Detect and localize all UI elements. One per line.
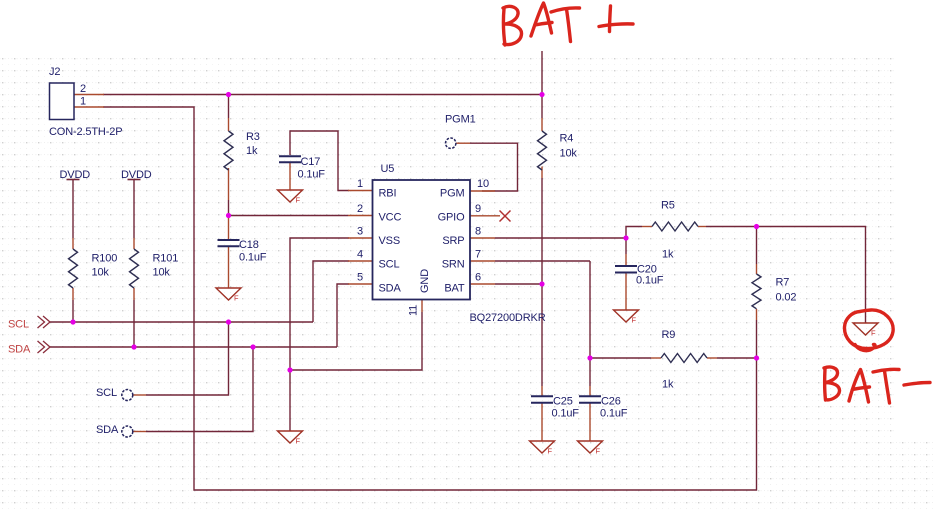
svg-text:R5: R5 [661,200,675,212]
wire J2 pin1 to bottom rail to R7/R9 junction [103,107,757,490]
C20 bottom leg to ground [625,273,627,311]
wire C20 junction riser to R5 [626,227,642,239]
R101 bottom leg [133,288,135,300]
svg-text:6: 6 [475,272,481,284]
connector J2 body [50,83,75,120]
wire R101 bottom dark part [133,300,135,346]
wire SDA rail [50,346,337,348]
capacitor C18 plates [218,240,240,246]
pin 1 RBI stub [348,190,373,192]
junction R3/bus [226,92,231,97]
node BAT+ handwritten annotation [503,6,522,45]
svg-text:0.1uF: 0.1uF [600,408,628,420]
svg-text:F: F [871,329,876,338]
junction SDA branch [250,344,255,349]
resistor R4 zigzag [538,131,547,170]
svg-text:C18: C18 [239,239,259,251]
svg-text:SRP: SRP [442,235,464,247]
junction R101/SDA rail [131,344,136,349]
wire SCL rail rise to pin 4 [313,261,349,322]
wire C20 top dark part [625,239,627,254]
resistor R7 zigzag [752,274,761,309]
C26 top leg [589,386,591,396]
wire VSS pin 3 down to ground [290,238,349,431]
pin 3 VSS stub [348,237,373,239]
wire R9 right segment [717,357,757,359]
svg-text:10k: 10k [560,148,578,160]
C18 bottom leg to ground [228,247,230,288]
svg-text:F: F [234,294,239,303]
pin 5 SDA stub [348,283,373,285]
wire VCC net R3/C18 junction to pin 2 [230,215,348,217]
wire R9 left segment [590,357,651,359]
svg-text:1k: 1k [662,379,674,391]
R7 top leg [756,264,758,274]
wire GND pin 11 to VSS ground branch [290,312,422,370]
wire R7 top leg dark part [756,227,758,264]
wire R100 bottom dark part [72,300,74,321]
port SDA chevrons [38,341,51,353]
svg-text:C26: C26 [601,396,621,408]
svg-text:F: F [632,316,637,325]
svg-text:DVDD: DVDD [121,169,152,181]
svg-text:1k: 1k [246,145,258,157]
svg-text:8: 8 [475,226,481,238]
svg-text:0.1uF: 0.1uF [636,275,664,287]
wire R3 bottom leg dark part [228,200,230,214]
pin 2 VCC lead [348,215,373,217]
PGM1 circle lead [456,142,470,144]
capacitor C25 plates [531,396,553,403]
capacitor C26 plates [579,396,601,403]
SCL circle lead [133,394,146,396]
svg-text:J2: J2 [49,66,60,78]
R3 top leg [228,118,230,131]
ground at C20 [614,310,639,322]
red circle around BAT- ground [844,310,893,351]
R3 bottom leg [228,168,230,200]
svg-text:7: 7 [475,249,481,261]
junction VSS/GND [287,367,292,372]
wire SRN dark part [495,260,590,262]
ground at VSS [278,431,303,443]
svg-text:0.1uF: 0.1uF [552,408,580,420]
SDA circle lead [133,431,146,433]
DVDD power bar 1 [67,179,80,181]
C17 bottom leg to ground [289,163,291,190]
C18 top leg [228,217,230,240]
svg-text:0.1uF: 0.1uF [298,169,326,181]
wire C17 top to pin RBI [290,131,349,191]
capacitor C20 plates [615,266,637,273]
junction SRP/C20/R5 [623,235,628,240]
SDA sheet circle [122,426,133,437]
wire J2 pin2 bus to BAT+ node [103,94,542,96]
wire C26 leg dark part [589,359,591,386]
C26 bottom leg to ground [589,403,591,441]
wire SRN pin 7 down to R9/C26 junction [589,261,591,358]
svg-text:GND: GND [419,269,431,293]
wire DVDD to R100 [72,180,74,238]
resistor R3 zigzag [224,131,233,170]
wire SCL rail [50,321,313,323]
junction SRN/R9/C26 [587,355,592,360]
J2 pin 2 lead [74,94,104,96]
wire C25 leg dark part [541,285,543,386]
node BAT- handwritten annotation [824,367,840,400]
R7 bottom leg [756,309,758,320]
R4 top leg [541,118,543,131]
svg-text:BQ27200DRKR: BQ27200DRKR [470,312,546,324]
capacitor C17 plates [279,156,301,162]
svg-text:SDA: SDA [96,424,119,436]
pin 6 BAT lead [470,283,495,285]
wire SDA sheet circle branch [146,347,253,432]
junction BAT/R4/C25 [539,281,544,286]
svg-text:R9: R9 [662,329,676,341]
svg-text:SDA: SDA [8,344,31,356]
svg-text:C17: C17 [301,156,321,168]
resistor R100 zigzag [69,249,78,288]
pin 8 SRP lead [470,237,495,239]
svg-text:0.02: 0.02 [776,292,797,304]
junction SCL branch [226,319,231,324]
svg-text:R3: R3 [246,131,260,143]
ground at C26 [578,441,603,453]
resistor R5 zigzag [652,222,698,231]
svg-text:SCL: SCL [96,387,117,399]
svg-text:10k: 10k [92,267,110,279]
svg-text:R7: R7 [776,277,790,289]
svg-text:3: 3 [357,226,363,238]
ground at C18 [216,288,241,300]
svg-text:11: 11 [408,305,420,316]
no-connect X on GPIO pin 9 [500,211,511,222]
pin 11 GND stub [421,299,423,312]
junction R3/C18/VCC [226,213,231,218]
svg-text:VCC: VCC [379,212,402,224]
svg-text:BAT: BAT [444,283,465,295]
C25 top leg [541,386,543,396]
wire PGM1 to pin 10 [470,143,518,191]
svg-text:9: 9 [475,203,481,215]
wire R5 right side to BAT- ground [706,227,866,324]
svg-text:SDA: SDA [379,283,402,295]
svg-text:R4: R4 [560,133,574,145]
C20 top leg [625,254,627,266]
wire R7 bottom leg dark part [756,320,758,357]
R100 bottom leg [72,288,74,300]
svg-text:VSS: VSS [379,235,401,247]
svg-text:F: F [548,447,553,456]
ground at BAT- (circled) [853,323,878,335]
DVDD power bar 2 [128,179,141,181]
C25 bottom leg to ground [541,403,543,441]
svg-text:R100: R100 [92,253,118,265]
svg-text:1k: 1k [662,249,674,261]
junction R100/SCL rail [70,319,75,324]
ground at C25 [530,441,555,453]
svg-text:R101: R101 [153,253,179,265]
svg-text:1: 1 [80,96,86,108]
PGM1 pad circle [446,138,456,148]
svg-text:1: 1 [357,178,363,190]
junction R5/R7 [754,224,759,229]
svg-text:CON-2.5TH-2P: CON-2.5TH-2P [49,126,122,138]
wire DVDD to R101 [133,180,135,238]
svg-text:SCL: SCL [379,259,400,271]
svg-text:F: F [296,437,301,446]
svg-text:10: 10 [477,178,489,190]
svg-text:5: 5 [357,272,363,284]
wire SRP dark part [495,237,626,239]
wire SDA rail rise to pin 5 [337,284,349,347]
wire R3 top leg dark part [228,96,230,118]
J2 pin 1 lead [74,106,104,108]
svg-text:2: 2 [357,203,363,215]
svg-text:10k: 10k [153,267,171,279]
wire SCL sheet circle branch [146,322,229,395]
IC U5 body [373,180,471,300]
port SCL chevrons [38,316,51,328]
svg-text:2: 2 [80,83,86,95]
resistor R101 zigzag [130,249,139,288]
svg-text:DVDD: DVDD [60,169,91,181]
pin 7 SRN lead [470,260,495,262]
svg-text:C25: C25 [553,396,573,408]
svg-text:0.1uF: 0.1uF [239,252,267,264]
svg-text:SRN: SRN [442,259,465,271]
svg-text:4: 4 [357,249,363,261]
junction R9/R7/bottom rail [754,355,759,360]
svg-text:GPIO: GPIO [438,212,465,224]
R9 bright legs [651,357,661,359]
junction BAT+/bus [539,92,544,97]
svg-text:U5: U5 [381,163,395,175]
R5 bright legs [642,226,652,228]
ground at C17 [278,190,303,202]
wire R4 bottom leg dark part [541,178,543,283]
svg-text:RBI: RBI [379,188,397,200]
svg-text:SCL: SCL [8,319,29,331]
svg-text:F: F [296,196,301,205]
R4 bottom leg [541,167,543,179]
resistor R9 zigzag [661,354,707,363]
svg-text:PGM: PGM [440,188,465,200]
pin 9 GPIO no-connect lead [470,215,500,217]
svg-text:PGM1: PGM1 [445,114,476,126]
wire BAT+ vertical into R4 [541,51,543,118]
svg-text:F: F [596,447,601,456]
SCL sheet circle [122,390,133,401]
pin 4 SCL stub [348,260,373,262]
pin 10 PGM lead [470,190,495,192]
wire BAT pin6 dark part [495,283,542,285]
